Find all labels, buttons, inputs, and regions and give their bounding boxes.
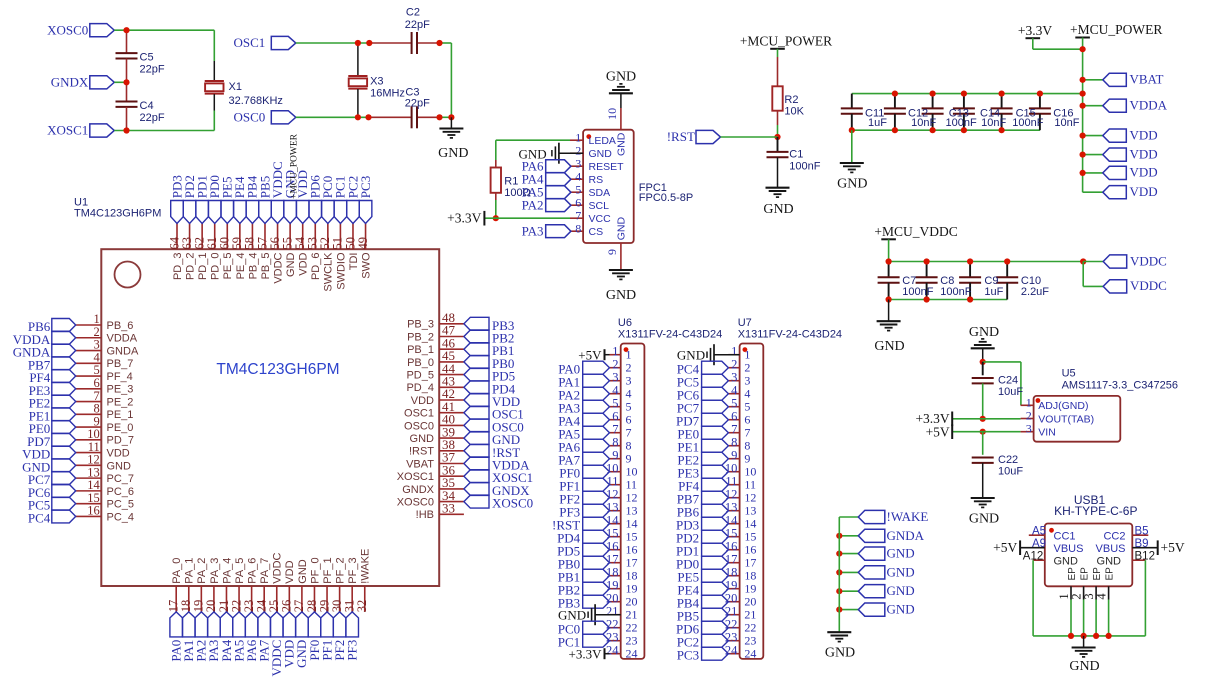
svg-text:XOSC0: XOSC0 [47, 22, 88, 37]
svg-text:PF3: PF3 [344, 640, 359, 661]
svg-text:7: 7 [744, 426, 750, 440]
svg-text:KH-TYPE-C-6P: KH-TYPE-C-6P [1054, 504, 1137, 518]
svg-text:32.768KHz: 32.768KHz [229, 95, 283, 107]
svg-text:24: 24 [626, 647, 638, 661]
svg-text:GNDX: GNDX [51, 75, 89, 90]
svg-text:10nF: 10nF [911, 117, 936, 129]
svg-text:GND: GND [677, 347, 705, 362]
svg-text:7: 7 [612, 423, 618, 437]
svg-text:49: 49 [356, 237, 370, 250]
svg-text:2: 2 [626, 361, 632, 375]
svg-text:PE_3: PE_3 [107, 384, 134, 396]
svg-text:1: 1 [731, 345, 737, 359]
svg-text:6: 6 [575, 196, 581, 210]
svg-text:PD_6: PD_6 [310, 253, 322, 281]
svg-text:GND: GND [438, 146, 468, 161]
svg-text:GND: GND [558, 607, 586, 622]
svg-text:100nF: 100nF [902, 286, 933, 298]
svg-text:GND: GND [969, 325, 999, 340]
svg-text:VDD: VDD [411, 395, 434, 407]
svg-text:RS: RS [589, 174, 604, 186]
svg-text:18: 18 [744, 569, 756, 583]
svg-text:GND: GND [825, 646, 855, 661]
svg-text:PA3: PA3 [522, 224, 544, 239]
svg-text:PD_0: PD_0 [210, 253, 222, 281]
svg-text:A5: A5 [1032, 526, 1046, 538]
svg-text:12: 12 [626, 491, 638, 505]
svg-text:14: 14 [626, 517, 638, 531]
svg-text:22pF: 22pF [405, 97, 430, 109]
svg-text:X1311FV-24-C43D24: X1311FV-24-C43D24 [618, 329, 722, 341]
svg-text:22: 22 [744, 621, 756, 635]
svg-text:PF_4: PF_4 [107, 371, 133, 383]
svg-text:VIN: VIN [1038, 427, 1056, 439]
svg-text:!RST: !RST [667, 129, 695, 144]
svg-text:2: 2 [1026, 409, 1032, 423]
svg-text:EP: EP [1092, 567, 1103, 581]
svg-text:8: 8 [575, 222, 581, 236]
svg-text:SWCLK: SWCLK [323, 252, 335, 292]
svg-text:XOSC1: XOSC1 [397, 471, 434, 483]
svg-text:2: 2 [744, 361, 750, 375]
svg-text:VBAT: VBAT [1130, 72, 1164, 87]
svg-text:R1: R1 [504, 175, 518, 187]
svg-text:PB_2: PB_2 [407, 331, 434, 343]
svg-text:OSC1: OSC1 [234, 35, 266, 50]
svg-text:4: 4 [626, 387, 632, 401]
svg-text:10: 10 [626, 465, 638, 479]
svg-text:VDDC: VDDC [1130, 253, 1167, 268]
svg-text:5: 5 [744, 400, 750, 414]
svg-text:GND: GND [887, 602, 915, 617]
svg-text:PD_2: PD_2 [184, 253, 196, 281]
svg-text:CS: CS [589, 226, 604, 238]
svg-text:!WAKE: !WAKE [887, 509, 929, 524]
svg-text:VDD: VDD [1130, 165, 1158, 180]
svg-text:B5: B5 [1135, 526, 1149, 538]
svg-text:GNDA: GNDA [887, 528, 925, 543]
svg-text:32: 32 [355, 600, 369, 613]
svg-text:100nF: 100nF [940, 286, 971, 298]
svg-text:C8: C8 [940, 275, 954, 287]
svg-text:GNDX: GNDX [402, 484, 434, 496]
svg-text:17: 17 [626, 556, 638, 570]
svg-text:6: 6 [744, 413, 750, 427]
svg-text:ADJ(GND): ADJ(GND) [1038, 400, 1088, 412]
svg-text:6: 6 [612, 410, 618, 424]
svg-text:23: 23 [626, 634, 638, 648]
svg-text:SWO: SWO [360, 252, 372, 279]
svg-text:PC4: PC4 [28, 510, 51, 525]
svg-text:PF_2: PF_2 [335, 557, 347, 583]
svg-text:PC_6: PC_6 [107, 486, 135, 498]
svg-text:VDDC: VDDC [1130, 278, 1167, 293]
svg-text:100Ω: 100Ω [504, 187, 531, 199]
svg-text:PD_4: PD_4 [406, 382, 434, 394]
svg-text:4: 4 [612, 384, 619, 398]
svg-text:10nF: 10nF [1054, 117, 1079, 129]
svg-text:20: 20 [744, 595, 756, 609]
svg-text:VDDA: VDDA [107, 333, 138, 345]
svg-text:OSC1: OSC1 [404, 408, 434, 420]
svg-text:GNDA: GNDA [107, 345, 139, 357]
svg-text:100nF: 100nF [789, 161, 820, 173]
svg-text:14: 14 [744, 517, 756, 531]
svg-text:PC3: PC3 [677, 648, 699, 663]
svg-text:10uF: 10uF [998, 465, 1023, 477]
svg-text:X3: X3 [370, 76, 383, 88]
svg-text:+MCU_VDDC: +MCU_VDDC [874, 224, 957, 239]
svg-text:U7: U7 [738, 317, 752, 329]
svg-text:XOSC1: XOSC1 [47, 123, 88, 138]
svg-text:18: 18 [626, 569, 638, 583]
svg-text:5: 5 [575, 183, 581, 197]
svg-text:!WAKE: !WAKE [360, 549, 372, 584]
svg-text:GND: GND [763, 202, 793, 217]
svg-text:PE_0: PE_0 [107, 422, 134, 434]
svg-text:SWDIO: SWDIO [335, 252, 347, 290]
svg-text:GND: GND [887, 546, 915, 561]
svg-text:PB_6: PB_6 [107, 320, 134, 332]
svg-text:10uF: 10uF [998, 386, 1023, 398]
svg-text:PD_7: PD_7 [107, 435, 135, 447]
svg-text:4: 4 [1095, 593, 1109, 600]
svg-text:PE_4: PE_4 [235, 253, 247, 280]
svg-text:7: 7 [575, 209, 581, 223]
svg-text:TM4C123GH6PM: TM4C123GH6PM [216, 361, 339, 378]
svg-text:VDD: VDD [1130, 184, 1158, 199]
svg-text:PA_1: PA_1 [184, 558, 196, 584]
svg-text:R2: R2 [784, 94, 798, 106]
svg-text:15: 15 [626, 530, 638, 544]
svg-text:+5V: +5V [578, 347, 602, 362]
svg-text:GND: GND [297, 559, 309, 584]
svg-text:16: 16 [626, 543, 638, 557]
svg-text:2: 2 [612, 358, 618, 372]
svg-text:FPC0.5-8P: FPC0.5-8P [639, 192, 693, 204]
svg-text:PA_2: PA_2 [196, 558, 208, 584]
svg-text:PB_4: PB_4 [247, 253, 259, 280]
svg-text:GND: GND [874, 339, 904, 354]
svg-text:X1311FV-24-C43D24: X1311FV-24-C43D24 [738, 329, 842, 341]
svg-text:EP: EP [1104, 567, 1115, 581]
svg-text:3: 3 [1026, 422, 1032, 436]
svg-text:5: 5 [612, 397, 618, 411]
svg-text:8: 8 [626, 439, 632, 453]
svg-text:100nF: 100nF [1012, 117, 1043, 129]
svg-text:9: 9 [626, 452, 632, 466]
svg-text:C5: C5 [140, 52, 154, 64]
svg-text:3: 3 [626, 374, 632, 388]
svg-text:!HB: !HB [416, 509, 434, 521]
svg-text:GND: GND [616, 132, 628, 156]
svg-text:SDA: SDA [589, 187, 611, 199]
svg-text:23: 23 [744, 634, 756, 648]
svg-text:5: 5 [731, 397, 737, 411]
svg-text:+MCU_POWER: +MCU_POWER [740, 33, 832, 48]
svg-text:VOUT(TAB): VOUT(TAB) [1038, 413, 1094, 425]
svg-text:GND: GND [410, 433, 435, 445]
svg-text:2.2uF: 2.2uF [1021, 286, 1049, 298]
svg-text:3: 3 [575, 157, 581, 171]
svg-text:+3.3V: +3.3V [447, 211, 481, 226]
svg-text:PD_1: PD_1 [197, 253, 209, 281]
svg-text:33: 33 [442, 501, 455, 516]
svg-text:22pF: 22pF [140, 64, 165, 76]
svg-text:6: 6 [626, 413, 632, 427]
svg-text:X1: X1 [229, 81, 242, 93]
svg-text:7: 7 [731, 423, 737, 437]
svg-text:PA_6: PA_6 [247, 558, 259, 584]
svg-text:+5V: +5V [1161, 540, 1185, 555]
svg-text:13: 13 [626, 504, 638, 518]
svg-text:EP: EP [1067, 567, 1078, 581]
svg-text:+MCU_POWER: +MCU_POWER [1070, 22, 1162, 37]
svg-text:VDD: VDD [1130, 146, 1158, 161]
svg-text:VBUS: VBUS [1096, 543, 1126, 555]
svg-text:24: 24 [606, 644, 619, 658]
svg-text:PE_5: PE_5 [222, 253, 234, 280]
svg-text:GND: GND [285, 252, 297, 277]
svg-text:4: 4 [731, 384, 738, 398]
svg-text:PA_5: PA_5 [234, 558, 246, 584]
svg-text:5: 5 [626, 400, 632, 414]
svg-text:TM4C123GH6PM: TM4C123GH6PM [74, 208, 161, 220]
svg-text:PB_1: PB_1 [407, 344, 434, 356]
svg-text:OSC0: OSC0 [234, 110, 266, 125]
svg-text:XOSC0: XOSC0 [397, 497, 434, 509]
svg-text:10: 10 [605, 108, 619, 120]
svg-text:VDD: VDD [298, 252, 310, 275]
svg-text:VBUS: VBUS [1054, 543, 1084, 555]
svg-text:7: 7 [626, 426, 632, 440]
svg-text:9: 9 [744, 452, 750, 466]
svg-text:!RST: !RST [409, 446, 434, 458]
svg-text:VBAT: VBAT [406, 458, 434, 470]
svg-text:GND: GND [1069, 659, 1099, 674]
svg-text:PB_5: PB_5 [260, 253, 272, 280]
svg-text:1: 1 [626, 348, 632, 362]
svg-text:SCL: SCL [589, 200, 610, 212]
svg-text:+3.3V: +3.3V [1018, 23, 1052, 38]
svg-text:19: 19 [626, 582, 638, 596]
svg-text:22pF: 22pF [405, 19, 430, 31]
svg-text:19: 19 [744, 582, 756, 596]
svg-text:GND: GND [606, 70, 636, 85]
svg-text:4: 4 [575, 170, 581, 184]
svg-text:13: 13 [744, 504, 756, 518]
svg-text:4: 4 [744, 387, 750, 401]
svg-text:PA_3: PA_3 [209, 558, 221, 584]
svg-text:9: 9 [731, 449, 737, 463]
svg-text:11: 11 [626, 478, 638, 492]
svg-text:PF_0: PF_0 [309, 557, 321, 583]
svg-text:VDD: VDD [284, 560, 296, 583]
svg-text:PD_3: PD_3 [172, 253, 184, 281]
svg-text:VDDA: VDDA [1130, 98, 1168, 113]
svg-text:1uF: 1uF [984, 286, 1003, 298]
svg-text:VDD: VDD [1130, 127, 1158, 142]
svg-text:10: 10 [744, 465, 756, 479]
svg-text:1: 1 [1026, 395, 1032, 409]
svg-text:C9: C9 [984, 275, 998, 287]
svg-text:EP: EP [1079, 567, 1090, 581]
svg-text:3: 3 [612, 371, 618, 385]
svg-text:3: 3 [731, 371, 737, 385]
svg-text:PA_4: PA_4 [221, 558, 233, 584]
svg-text:1: 1 [744, 348, 750, 362]
svg-text:C1: C1 [789, 149, 803, 161]
svg-text:GND: GND [837, 176, 867, 191]
svg-text:CC1: CC1 [1054, 530, 1076, 542]
svg-text:+5V: +5V [926, 424, 950, 439]
svg-text:C10: C10 [1021, 275, 1041, 287]
svg-text:XOSC0: XOSC0 [492, 496, 533, 511]
svg-text:GND: GND [887, 583, 915, 598]
svg-text:PB_0: PB_0 [407, 357, 434, 369]
svg-text:GND: GND [1054, 555, 1079, 567]
svg-text:PC3: PC3 [358, 176, 373, 198]
svg-text:PB_3: PB_3 [407, 319, 434, 331]
svg-text:21: 21 [626, 608, 638, 622]
svg-text:C4: C4 [140, 100, 154, 112]
svg-text:17: 17 [744, 556, 756, 570]
svg-text:22pF: 22pF [140, 112, 165, 124]
svg-text:VDDC: VDDC [272, 252, 284, 283]
svg-text:24: 24 [744, 647, 756, 661]
svg-text:GND: GND [606, 288, 636, 303]
svg-text:U6: U6 [618, 317, 632, 329]
svg-text:100nF: 100nF [946, 117, 977, 129]
svg-text:PA2: PA2 [522, 198, 544, 213]
svg-text:10K: 10K [784, 106, 804, 118]
svg-text:VDD: VDD [107, 448, 130, 460]
svg-text:8: 8 [744, 439, 750, 453]
svg-text:11: 11 [744, 478, 756, 492]
svg-text:GND: GND [107, 460, 132, 472]
svg-text:PF_1: PF_1 [322, 557, 334, 583]
svg-text:C24: C24 [998, 375, 1018, 387]
svg-text:15: 15 [744, 530, 756, 544]
svg-text:8: 8 [731, 436, 737, 450]
svg-text:16: 16 [87, 504, 100, 518]
svg-text:1uF: 1uF [868, 117, 887, 129]
svg-text:9: 9 [612, 449, 618, 463]
svg-text:PA_0: PA_0 [171, 558, 183, 584]
svg-text:GND: GND [969, 511, 999, 526]
svg-text:1: 1 [575, 131, 581, 145]
svg-text:C7: C7 [902, 275, 916, 287]
svg-text:U5: U5 [1062, 368, 1076, 380]
svg-text:CC2: CC2 [1103, 530, 1125, 542]
svg-text:VCC: VCC [589, 213, 612, 225]
svg-text:16: 16 [744, 543, 756, 557]
svg-text:2: 2 [731, 358, 737, 372]
svg-text:3: 3 [744, 374, 750, 388]
svg-text:PA_7: PA_7 [259, 558, 271, 584]
svg-text:PC_4: PC_4 [107, 511, 135, 523]
svg-text:9: 9 [605, 249, 619, 255]
svg-text:20: 20 [626, 595, 638, 609]
svg-text:+3.3V: +3.3V [569, 646, 603, 661]
svg-text:C2: C2 [406, 7, 420, 19]
svg-text:12: 12 [744, 491, 756, 505]
svg-text:PB_7: PB_7 [107, 358, 134, 370]
svg-text:PC_5: PC_5 [107, 499, 135, 511]
svg-text:RESET: RESET [589, 161, 625, 173]
svg-text:GND: GND [616, 217, 628, 241]
svg-text:+5V: +5V [993, 540, 1017, 555]
svg-text:2: 2 [575, 144, 581, 158]
svg-text:C22: C22 [998, 454, 1018, 466]
svg-text:6: 6 [731, 410, 737, 424]
svg-text:VDDC: VDDC [272, 552, 284, 583]
svg-text:21: 21 [744, 608, 756, 622]
svg-text:PE_1: PE_1 [107, 409, 134, 421]
svg-text:PD_5: PD_5 [406, 370, 434, 382]
svg-text:GND: GND [589, 148, 613, 160]
svg-text:PF_3: PF_3 [347, 557, 359, 583]
svg-text:+MCU_POWER: +MCU_POWER [290, 133, 300, 199]
svg-text:16MHz: 16MHz [370, 88, 405, 100]
svg-text:GND: GND [1097, 555, 1122, 567]
svg-text:AMS1117-3.3_C347256: AMS1117-3.3_C347256 [1062, 379, 1178, 391]
svg-text:TDI: TDI [348, 253, 360, 271]
svg-text:LEDA: LEDA [589, 135, 616, 147]
svg-text:1: 1 [612, 345, 618, 359]
svg-text:GND: GND [887, 564, 915, 579]
svg-text:10nF: 10nF [981, 117, 1006, 129]
svg-text:21: 21 [606, 605, 619, 619]
svg-text:PE_2: PE_2 [107, 396, 134, 408]
svg-text:8: 8 [612, 436, 618, 450]
svg-text:PC_7: PC_7 [107, 473, 135, 485]
svg-text:22: 22 [626, 621, 638, 635]
svg-text:OSC0: OSC0 [404, 420, 434, 432]
